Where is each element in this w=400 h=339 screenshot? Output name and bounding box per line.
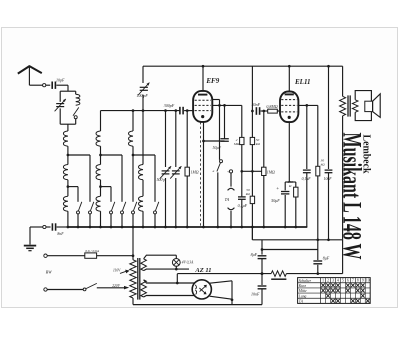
- node EL11 grid: [262, 110, 265, 113]
- capacitor 8nF ground blocking: [51, 223, 53, 230]
- wire branch B2 to switch S5: [101, 186, 112, 188]
- svg-text:100 pF: 100 pF: [136, 93, 148, 98]
- trimmer capacitor C8: [172, 170, 180, 172]
- svg-text:Musikant L 148 W: Musikant L 148 W: [337, 133, 366, 260]
- wire cathode to bypass cap: [204, 140, 225, 142]
- svg-text:+: +: [276, 187, 279, 192]
- wire coil L4 to bus: [67, 211, 69, 227]
- transformer T1 core: [137, 258, 139, 300]
- svg-text:6: 6: [347, 279, 349, 283]
- svg-text:10pF: 10pF: [56, 77, 65, 82]
- svg-text:3: 3: [332, 279, 334, 283]
- wire screen vertical end: [342, 240, 344, 274]
- wire bus to B plus node: [251, 227, 253, 240]
- wire top rail to trimmer: [142, 66, 144, 83]
- wire EL11 g3 to bus: [306, 105, 308, 169]
- coil L10: [139, 196, 144, 211]
- svg-text:1: 1: [322, 279, 324, 283]
- variable capacitor 500pF: [162, 170, 170, 172]
- wire AZ11 anode top: [210, 281, 232, 283]
- coil L5: [96, 131, 101, 146]
- svg-text:a: a: [213, 169, 215, 173]
- trimmer capacitor 100pF: [140, 86, 148, 88]
- wire HT line: [177, 273, 271, 275]
- wire screen to dropper: [241, 105, 243, 137]
- coil L3: [63, 165, 68, 180]
- coil L1 tank: [76, 94, 80, 105]
- node smoothing: [316, 272, 319, 275]
- wire grid bus to coil L8: [132, 111, 134, 131]
- coil L7: [96, 196, 101, 211]
- svg-text:BW: BW: [46, 269, 52, 274]
- transformer T2 core: [347, 95, 349, 116]
- switch S4 band selector: [122, 202, 125, 211]
- transformer T1 secondary heater: [141, 259, 147, 271]
- node g3 tie EL11: [305, 104, 308, 107]
- svg-text:2: 2: [327, 279, 329, 283]
- svg-text:50μF: 50μF: [213, 145, 222, 150]
- svg-text:8nF: 8nF: [57, 232, 64, 236]
- svg-text:4: 4: [337, 279, 339, 283]
- capacitor 30nF coupling: [255, 107, 257, 115]
- svg-text:EF9: EF9: [205, 77, 219, 85]
- coil L6: [96, 165, 101, 180]
- wire cap to tank circuit: [56, 84, 68, 86]
- svg-text:50μF: 50μF: [271, 198, 280, 203]
- wire grid bus to trimmer 2: [175, 111, 177, 167]
- resistor R3 50k: [250, 137, 254, 144]
- wire ground bus: [67, 226, 307, 228]
- svg-text:9: 9: [362, 279, 364, 283]
- svg-text:220V: 220V: [112, 284, 120, 288]
- tube EL11: [280, 92, 298, 123]
- svg-text:10nF: 10nF: [251, 292, 260, 297]
- resistor R5 0.8M grid stopper: [268, 109, 278, 113]
- switch S6 band selector: [133, 202, 136, 211]
- wire HT line right: [286, 273, 342, 275]
- capacitor 10nF anode bypass: [325, 169, 333, 171]
- svg-text:TA: TA: [225, 197, 230, 202]
- wire AZ11 anode bottom: [210, 296, 232, 299]
- svg-text:kΩ: kΩ: [246, 192, 251, 196]
- wire link R2 R3: [242, 170, 262, 172]
- wire T2 bottom down: [342, 116, 344, 240]
- svg-text:MΩ: MΩ: [233, 142, 240, 146]
- wire rail to output transformer: [342, 66, 344, 96]
- wire screen feed: [328, 66, 330, 169]
- resistor R4 50k: [250, 196, 254, 203]
- tube AZ11 rectifier: [192, 280, 211, 299]
- wire 300pF to EF9 grid: [184, 110, 193, 112]
- svg-text:8: 8: [357, 279, 359, 283]
- svg-text:10: 10: [366, 279, 370, 283]
- svg-text:8μF: 8μF: [323, 256, 330, 261]
- node fuse to transformer: [132, 254, 135, 257]
- wire branch C1 to switch S7: [133, 154, 155, 156]
- wire grid bus to variable cap: [165, 111, 167, 167]
- transformer T1 secondary rectifier: [141, 280, 147, 297]
- resistor R6 1M grid leak EL11: [263, 111, 265, 167]
- wire T1 bottom: [132, 298, 134, 305]
- node grid bus junctions: [132, 109, 135, 112]
- wire ground branch: [30, 226, 43, 228]
- resistor R1 1M grid leak: [186, 111, 188, 168]
- wire tuning gang dashed link: [200, 122, 202, 226]
- tap 110V: [120, 271, 126, 273]
- switch S5 band selector: [111, 202, 114, 211]
- svg-text:30nF: 30nF: [252, 102, 261, 107]
- wire grid bus: [101, 110, 180, 112]
- switch position table: [298, 278, 371, 304]
- wire rectifier filament 1: [144, 280, 195, 283]
- wire HT line start: [176, 274, 178, 283]
- svg-text:EL11: EL11: [294, 78, 311, 86]
- capacitor 50uF cathode EL11: [284, 182, 286, 190]
- wire top rail: [143, 65, 343, 67]
- node ladder A2: [67, 185, 70, 188]
- fuse F1: [85, 253, 97, 258]
- node coupling: [251, 110, 254, 113]
- node ladder A1: [67, 154, 70, 157]
- transformer T2 primary: [340, 96, 346, 116]
- capacitor 10pF antenna coupling: [51, 82, 53, 89]
- resistor R8 field coil: [271, 271, 286, 277]
- node B plus junctions: [316, 238, 319, 241]
- lamp pilot: [172, 259, 180, 267]
- wire to 0.8M: [261, 110, 268, 112]
- node AZ11 output: [231, 298, 234, 301]
- input tank circuit box: [60, 90, 75, 92]
- svg-text:5: 5: [342, 279, 344, 283]
- node filter junctions: [261, 248, 264, 251]
- resistor R2 2M: [240, 137, 244, 144]
- wire tank bottom to coil ladder: [67, 124, 69, 131]
- node ladder C1: [132, 154, 135, 157]
- wire EL11 screen down: [317, 105, 319, 166]
- coil L4: [63, 196, 68, 211]
- wire EF9 cathode: [203, 122, 205, 227]
- node R3 bottom: [251, 170, 254, 173]
- wire mains terminal 2: [44, 288, 47, 291]
- node screen feed on rail: [327, 65, 330, 68]
- node EF9 cathode junction: [202, 140, 205, 143]
- svg-text:kΩ: kΩ: [256, 142, 261, 146]
- wire branch A1 to switch S2: [68, 154, 90, 156]
- node HT filament junction: [176, 282, 179, 285]
- wire B plus node line: [252, 239, 342, 241]
- transformer T2 secondary: [352, 100, 358, 113]
- switch S2 band selector: [90, 202, 93, 211]
- variable capacitor C1 tuning: [56, 103, 64, 105]
- node bus junctions: [67, 226, 70, 229]
- capacitor 0.1uF decoupling: [238, 196, 246, 198]
- node R2 bottom: [240, 170, 243, 173]
- wire heater line top: [144, 255, 177, 259]
- capacitor 8uF filter 2: [317, 240, 319, 260]
- node EF9 grid: [186, 109, 189, 112]
- resistor R7 200 ohm cathode: [295, 182, 297, 187]
- wire heater line bottom: [144, 269, 189, 271]
- wire EL11 screen line: [298, 104, 318, 106]
- capacitor 50uF cathode bypass: [224, 105, 226, 138]
- wire bus to power transformer: [132, 227, 134, 260]
- wire branch A2 to switch S3: [68, 186, 78, 188]
- svg-text:300pF: 300pF: [164, 103, 175, 108]
- switch S7 band selector: [155, 202, 158, 211]
- node ladder B1: [99, 154, 102, 157]
- capacitor 0.1uF screen bypass: [303, 169, 311, 171]
- switch S1 in tank: [73, 107, 79, 115]
- ground: [29, 227, 31, 245]
- node HT junctions: [261, 272, 264, 275]
- switch S3 band selector: [78, 202, 81, 211]
- capacitor 8uF filter 1: [261, 240, 263, 255]
- node EL11 anode on rail: [288, 65, 291, 68]
- wire EL11 cathode: [288, 122, 290, 182]
- capacitor 10nF: [258, 285, 267, 287]
- svg-text:1MΩ: 1MΩ: [191, 170, 199, 174]
- svg-text:Mitte: Mitte: [298, 289, 307, 293]
- node lamp junction: [175, 268, 178, 271]
- wire trimmer to grid bus: [142, 95, 144, 111]
- wire antenna to coupling cap: [29, 84, 42, 86]
- wire mains terminal 1: [44, 254, 47, 257]
- tube EF9: [193, 91, 212, 122]
- wire EF9 screen line: [212, 104, 242, 106]
- switch S9 mains: [83, 288, 86, 291]
- node ladder B2: [99, 185, 102, 188]
- wire branch B1 to switch S4: [101, 154, 123, 156]
- svg-text:Kurz: Kurz: [298, 284, 307, 288]
- connector TA jack: [228, 188, 235, 190]
- resistor R9 30k screen: [316, 166, 320, 176]
- switch S8 pickup selector: [220, 160, 223, 163]
- wire EF9 g3 tie: [212, 99, 220, 101]
- svg-text:7: 7: [352, 279, 354, 283]
- wire cathode filter link: [262, 249, 318, 251]
- svg-text:8μF: 8μF: [251, 252, 258, 257]
- svg-text:AZ 11: AZ 11: [194, 267, 211, 274]
- svg-text:kΩ: kΩ: [321, 162, 326, 166]
- capacitor 300pF grid coupling: [179, 107, 181, 115]
- coil L2: [63, 131, 68, 146]
- wire grid bus left end down: [100, 111, 102, 131]
- coil L9: [142, 111, 144, 165]
- coil L8: [129, 131, 134, 146]
- svg-text:+: +: [227, 170, 229, 174]
- wire anode feed from rail: [251, 66, 253, 137]
- svg-text:1MΩ: 1MΩ: [267, 170, 275, 174]
- svg-text:Lang: Lang: [298, 294, 307, 298]
- transformer T1 primary: [130, 260, 136, 298]
- node screen junctions: [218, 104, 221, 107]
- wire rectifier filament 2: [144, 296, 195, 298]
- svg-text:110V: 110V: [113, 268, 121, 272]
- antenna: [18, 66, 42, 74]
- wire TA terminal: [229, 170, 232, 173]
- node EF9 anode on rail: [202, 65, 205, 68]
- speaker LS1: [355, 91, 371, 102]
- svg-text:Schalter: Schalter: [299, 279, 312, 283]
- svg-text:500 p: 500 p: [157, 178, 166, 182]
